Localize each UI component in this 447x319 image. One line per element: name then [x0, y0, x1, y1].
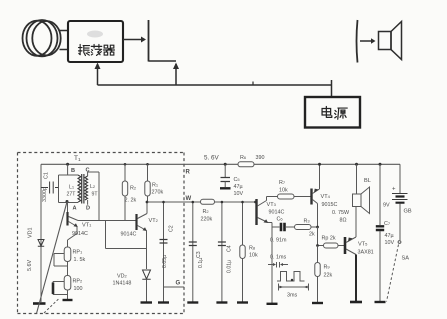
dimension 3ms	[279, 284, 309, 291]
svg-text:C2: C2	[169, 225, 175, 232]
long horizontal wire	[98, 84, 332, 86]
vertical wire C2	[163, 202, 165, 302]
svg-text:9V: 9V	[383, 203, 390, 209]
diode VD2 1N4148	[142, 270, 150, 279]
transistor VT3	[254, 201, 257, 204]
svg-text:GB: GB	[404, 209, 412, 215]
up arrow wire	[175, 64, 177, 85]
svg-text:9015C: 9015C	[322, 202, 338, 208]
svg-text:9T: 9T	[92, 192, 99, 198]
junction tick on wire	[252, 82, 254, 86]
svg-text:22k: 22k	[324, 273, 333, 279]
svg-text:0.01µ: 0.01µ	[227, 260, 233, 273]
svg-text:B: B	[71, 168, 75, 174]
resistor R3 2k	[295, 225, 312, 230]
transistor VT5 3AX81	[344, 237, 347, 254]
svg-text:Rp 2k: Rp 2k	[322, 236, 336, 242]
svg-text:C4: C4	[227, 245, 233, 252]
svg-text:3AX81: 3AX81	[358, 250, 374, 256]
svg-text:0. 75W: 0. 75W	[332, 210, 350, 216]
node dot rail/T1	[66, 163, 69, 166]
T1 winding L1	[78, 175, 81, 202]
T1 top lead	[67, 164, 69, 175]
wire box below	[106, 221, 147, 249]
vertical wire R8	[242, 202, 244, 245]
svg-text:R: R	[186, 170, 191, 176]
resistor R1 270k	[147, 164, 149, 181]
svg-text:0.05µ: 0.05µ	[162, 255, 168, 268]
+5.6V top rail	[41, 163, 400, 165]
wire down to RP1	[67, 240, 69, 247]
svg-text:2. 2k: 2. 2k	[125, 198, 137, 204]
svg-text:3300p: 3300p	[42, 187, 48, 202]
up arrow into oscillator	[97, 64, 99, 85]
svg-text:A: A	[73, 206, 77, 212]
svg-text:10k: 10k	[249, 253, 258, 259]
W rail	[148, 201, 256, 203]
resistor R2 220k on W rail	[201, 199, 215, 204]
G stub wire	[164, 286, 185, 288]
svg-text:27T: 27T	[67, 192, 77, 198]
capacitor C6 electrolytic	[272, 226, 280, 228]
speaker BL	[355, 163, 358, 166]
svg-text:9014C: 9014C	[72, 231, 88, 237]
ground below RP2	[67, 290, 69, 300]
arrow oscillator to bar	[123, 39, 141, 41]
wire VT1 collector to VT2 base	[78, 220, 137, 222]
svg-text:5.6V: 5.6V	[27, 260, 33, 271]
potentiometer RP1	[64, 247, 71, 262]
speaker	[379, 32, 392, 50]
junction dots on rail	[124, 163, 127, 166]
svg-text:220k: 220k	[201, 217, 213, 223]
svg-text:+: +	[392, 187, 396, 193]
wire A to VT1	[67, 202, 69, 213]
capacitor C5 on rail	[224, 163, 227, 166]
power box	[305, 97, 360, 128]
svg-text:1N4148: 1N4148	[113, 281, 132, 287]
coil to oscillator wires	[60, 31, 69, 50]
node A junction dot	[66, 200, 69, 203]
capacitor C7	[379, 163, 382, 166]
svg-text:5. 6V: 5. 6V	[204, 155, 220, 162]
ground bar left	[33, 302, 46, 305]
svg-text:BL: BL	[364, 178, 371, 184]
svg-text:8Ω: 8Ω	[340, 218, 347, 224]
speaker input bar	[357, 20, 358, 63]
switch SA	[398, 241, 401, 244]
svg-text:0. 1ms: 0. 1ms	[270, 255, 286, 261]
resistor R7 10k	[267, 196, 278, 198]
svg-text:0. 91m: 0. 91m	[270, 238, 287, 244]
svg-text:47µ: 47µ	[385, 233, 394, 239]
svg-text:9014C: 9014C	[121, 232, 137, 238]
T1 primary frame	[59, 175, 79, 203]
svg-text:270k: 270k	[152, 190, 164, 196]
wire VT4 collector down / resistor Rp 2k	[318, 227, 324, 246]
transistor VT1	[66, 212, 68, 226]
arrow to speaker	[360, 40, 371, 42]
vertical wire C4	[221, 202, 223, 302]
node dot VT2 collector	[146, 201, 149, 204]
svg-text:3ms: 3ms	[287, 293, 297, 299]
svg-text:G: G	[176, 281, 181, 287]
battery GB	[399, 164, 401, 193]
vertical wire C3	[192, 202, 194, 302]
long wiper diagonal	[37, 202, 68, 314]
diode VD1	[38, 240, 44, 247]
svg-text:D: D	[86, 206, 90, 212]
T1 winding L2	[85, 176, 88, 200]
svg-text:C1: C1	[44, 172, 50, 179]
svg-text:100: 100	[74, 286, 83, 292]
svg-text:0.1µ: 0.1µ	[198, 258, 204, 268]
svg-text:390: 390	[256, 155, 265, 161]
resistor R6 390 on rail	[238, 162, 254, 167]
svg-text:10V: 10V	[234, 191, 244, 197]
svg-text:1. 5k: 1. 5k	[74, 257, 86, 263]
svg-text:10V: 10V	[385, 240, 395, 246]
wire RP1 to RP2	[67, 262, 69, 276]
oscillator box	[68, 21, 123, 62]
svg-text:47µ: 47µ	[234, 184, 243, 190]
dashed pointer near RP2 ground	[44, 299, 59, 314]
svg-text:C: C	[86, 168, 90, 174]
small dimension arrows	[268, 262, 288, 268]
svg-text:SA: SA	[402, 256, 410, 262]
resistor R2 2.2k	[124, 164, 126, 181]
left vertical wire	[40, 164, 42, 302]
L2 top lead to right frame	[88, 172, 99, 221]
T1 core	[82, 174, 84, 204]
svg-text:C3: C3	[196, 251, 202, 258]
svg-text:2k: 2k	[309, 232, 315, 238]
wire down to power box	[331, 80, 333, 97]
wire L	[149, 60, 177, 62]
search coil	[23, 20, 61, 56]
faint smudge in box	[87, 31, 103, 38]
transistor VT4 9015C	[310, 189, 312, 205]
potentiometer RP2	[64, 276, 71, 291]
chinese text 振荡器 (oscillator)	[79, 45, 115, 56]
resistor Rx 22k	[316, 244, 319, 247]
svg-text:9014C: 9014C	[269, 210, 285, 216]
dashed enclosure	[18, 153, 185, 314]
capacitor C1	[41, 182, 59, 194]
waveform pulses	[277, 272, 305, 282]
vertical bar	[148, 20, 150, 62]
transistor VT2	[135, 214, 137, 230]
svg-text:W: W	[186, 196, 192, 202]
svg-text:10k: 10k	[279, 188, 288, 194]
chinese text 电源 (power)	[322, 107, 347, 120]
svg-text:VD1: VD1	[28, 228, 34, 239]
